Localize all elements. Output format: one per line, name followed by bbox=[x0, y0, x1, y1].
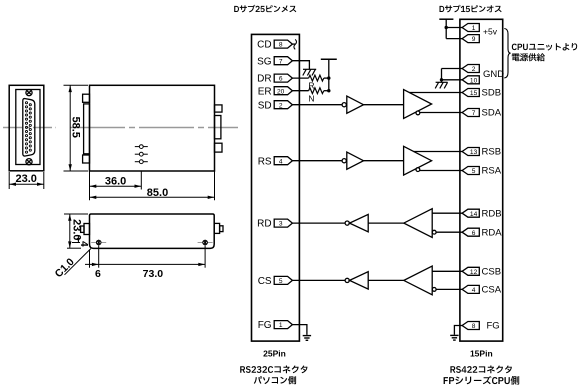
wire RSA bbox=[420, 170, 462, 172]
svg-text:5: 5 bbox=[279, 278, 283, 285]
svg-text:25Pin: 25Pin bbox=[263, 349, 286, 359]
svg-text:CS: CS bbox=[258, 276, 272, 287]
wire N to rail bbox=[324, 90, 329, 92]
driver U2 inverting bubble bbox=[416, 111, 420, 115]
pin 10 () connector symbol bbox=[462, 76, 479, 84]
no-connection break on CD bbox=[294, 39, 297, 49]
wire DR bbox=[292, 77, 308, 79]
driver U4 inverting bubble bbox=[416, 168, 420, 172]
wire pin10 to GND stem bbox=[442, 79, 463, 81]
wire R to rail bbox=[324, 77, 329, 79]
side view right connector body bbox=[215, 116, 221, 139]
+5v supply terminal bar bbox=[439, 18, 453, 20]
pin 7 (SG) connector symbol bbox=[274, 57, 292, 65]
svg-text:4: 4 bbox=[472, 287, 476, 294]
pin 6 (DR) connector symbol bbox=[274, 74, 292, 82]
pin 6 (RDA) connector symbol bbox=[462, 228, 479, 236]
wire SG bbox=[292, 61, 309, 69]
junction GND bbox=[440, 78, 443, 81]
pin 14 (RDB) connector symbol bbox=[462, 209, 479, 217]
svg-text:7: 7 bbox=[472, 110, 476, 117]
pin 5 (RSA) connector symbol bbox=[462, 167, 479, 175]
wire SD to buffer bbox=[292, 104, 342, 106]
caption RS232C connector bbox=[240, 366, 307, 374]
buffer U6 triangle (RD) bbox=[350, 214, 369, 231]
svg-text:23.0: 23.0 bbox=[15, 173, 36, 185]
chassis ground (SG) bbox=[303, 69, 316, 75]
svg-text:2: 2 bbox=[472, 66, 476, 73]
buffer U1 input bubble bbox=[342, 103, 346, 107]
wire ER bbox=[292, 90, 308, 92]
front view screw bottom bbox=[26, 159, 32, 165]
wire U3 to driver U4 bbox=[364, 160, 404, 162]
wire FG (25pin side) bbox=[292, 325, 307, 335]
header D-sub 25 pin female bbox=[234, 5, 296, 13]
pin 3 (RD) connector symbol bbox=[274, 219, 292, 227]
wire RDA bbox=[436, 231, 462, 233]
wire pin9 to rail bbox=[446, 38, 462, 40]
dimension 23.0 (bottom view) bbox=[64, 214, 88, 248]
wire RSB bbox=[414, 151, 463, 153]
wire SDA bbox=[420, 112, 462, 114]
bottom view left connector stub bbox=[84, 224, 90, 235]
svg-text:1: 1 bbox=[472, 25, 476, 32]
RS422 connector box (15pin) bbox=[460, 19, 503, 341]
pin 20 (ER) connector symbol bbox=[274, 87, 292, 95]
svg-text:SG: SG bbox=[257, 56, 272, 67]
earth ground (25pin FG) bbox=[303, 336, 311, 341]
svg-text:6: 6 bbox=[95, 268, 101, 280]
svg-text:RSA: RSA bbox=[482, 166, 502, 177]
dimension 36.0 bbox=[90, 172, 142, 190]
bottom view screw right bbox=[198, 240, 213, 246]
svg-text:9: 9 bbox=[472, 36, 476, 43]
wire CSB bbox=[432, 270, 462, 272]
bottom view body bbox=[90, 214, 215, 248]
pin 1 (+5v) connector symbol bbox=[462, 24, 479, 32]
pin 9 () connector symbol bbox=[462, 35, 479, 43]
svg-text:85.0: 85.0 bbox=[147, 187, 168, 199]
D-sub 25 shell outline bbox=[23, 99, 35, 157]
svg-text:15Pin: 15Pin bbox=[470, 349, 493, 359]
front view outer plate bbox=[9, 85, 44, 171]
svg-text:FG: FG bbox=[258, 320, 272, 331]
svg-text:4: 4 bbox=[279, 158, 283, 165]
side view left connector body bbox=[84, 104, 90, 154]
svg-text:2: 2 bbox=[279, 102, 283, 109]
side view right jack screw top bbox=[215, 105, 223, 112]
side view left jack screw bottom bbox=[83, 155, 90, 163]
svg-text:CSB: CSB bbox=[482, 267, 502, 278]
receiver U7 triangle (CS) bbox=[404, 266, 432, 295]
pin 15 (SDB) connector symbol bbox=[462, 89, 479, 97]
dimension 58.5 bbox=[64, 85, 89, 171]
wire RDB bbox=[432, 212, 462, 214]
wire CD stub bbox=[292, 43, 295, 45]
svg-text:CSA: CSA bbox=[482, 285, 502, 296]
wire U1 to driver U2 bbox=[364, 104, 404, 106]
svg-text:8: 8 bbox=[472, 323, 476, 330]
pin 2 (GND) connector symbol bbox=[462, 65, 479, 73]
pin 8 (FG) connector symbol bbox=[462, 322, 479, 330]
svg-text:RSB: RSB bbox=[482, 147, 502, 158]
resistor R bbox=[309, 75, 324, 81]
dimension 23.0 (front view) bbox=[9, 172, 44, 189]
caption PC side bbox=[254, 376, 296, 384]
junction ER/rail bbox=[327, 89, 330, 92]
svg-text:SDB: SDB bbox=[482, 88, 502, 99]
indicator pins on side view bbox=[135, 145, 148, 164]
svg-text:14: 14 bbox=[470, 211, 478, 218]
buffer U8 output bubble bbox=[345, 278, 349, 282]
svg-text:RS: RS bbox=[258, 156, 272, 167]
svg-text:73.0: 73.0 bbox=[143, 268, 164, 280]
wire U8 to receiver U7 bbox=[368, 279, 404, 281]
svg-text:SDA: SDA bbox=[482, 108, 502, 119]
wire CSA bbox=[436, 288, 462, 290]
dimension 85.0 bbox=[90, 172, 215, 201]
GND stem bbox=[441, 69, 443, 83]
svg-text:5: 5 bbox=[472, 168, 476, 175]
svg-text:6: 6 bbox=[472, 230, 476, 237]
front view inner flange bbox=[16, 90, 40, 165]
pin 2 (SD) connector symbol bbox=[274, 101, 292, 109]
wire pin1 to rail bbox=[446, 27, 462, 29]
svg-text:4: 4 bbox=[78, 241, 89, 247]
svg-text:10: 10 bbox=[470, 77, 478, 84]
centerline (side view) bbox=[70, 127, 238, 129]
receiver U5 triangle (RD) bbox=[404, 209, 432, 238]
side view right jack screw bottom bbox=[215, 143, 223, 152]
junction +5v bbox=[445, 26, 448, 29]
earth ground (15pin FG) bbox=[450, 335, 458, 340]
RS232C connector box (25pin) bbox=[252, 34, 300, 341]
svg-text:7: 7 bbox=[279, 58, 283, 65]
bottom view left connector tip bbox=[81, 226, 84, 232]
svg-text:20: 20 bbox=[277, 88, 285, 95]
svg-text:36.0: 36.0 bbox=[105, 175, 126, 187]
svg-text:FG: FG bbox=[487, 321, 500, 332]
pin 5 (CS) connector symbol bbox=[274, 276, 292, 284]
dimension 4 bbox=[72, 236, 80, 243]
svg-text:12: 12 bbox=[470, 269, 478, 276]
side view main body bbox=[90, 85, 215, 171]
svg-text:15: 15 bbox=[470, 90, 478, 97]
pin 1 (FG) connector symbol bbox=[274, 321, 292, 329]
svg-text:ER: ER bbox=[258, 86, 272, 97]
rail terminal bar bbox=[321, 58, 337, 60]
chamfer leader C1.0 bbox=[65, 249, 91, 275]
svg-text:GND: GND bbox=[483, 69, 504, 80]
receiver U5 inverting bubble bbox=[432, 230, 436, 234]
header D-sub 15 pin male bbox=[440, 5, 502, 13]
svg-text:13: 13 bbox=[470, 149, 478, 156]
receiver U7 inverting bubble bbox=[432, 288, 436, 292]
pin 13 (RSB) connector symbol bbox=[462, 148, 479, 156]
svg-text:58.5: 58.5 bbox=[69, 116, 81, 137]
pin 4 (RS) connector symbol bbox=[274, 157, 292, 165]
resistor N bbox=[309, 88, 324, 94]
bottom view screw left bbox=[91, 240, 106, 246]
wire U6 to receiver U5 bbox=[368, 222, 404, 224]
svg-text:CD: CD bbox=[257, 40, 271, 51]
svg-text:RDA: RDA bbox=[482, 227, 503, 238]
svg-text:N: N bbox=[308, 93, 314, 103]
chassis ground (GND) bbox=[435, 82, 447, 88]
pin 7 (SDA) connector symbol bbox=[462, 109, 479, 117]
buffer U1 triangle (SD) bbox=[347, 96, 364, 113]
wire RS to buffer bbox=[292, 160, 342, 162]
centerline (front view) bbox=[3, 127, 56, 129]
pin 12 (CSB) connector symbol bbox=[462, 267, 479, 275]
buffer U6 output bubble bbox=[345, 221, 349, 225]
svg-text:DR: DR bbox=[257, 74, 271, 85]
front view screw top bbox=[26, 90, 32, 96]
pin 8 (CD) connector symbol bbox=[274, 40, 292, 48]
buffer U8 triangle (CS) bbox=[350, 272, 369, 289]
buffer U3 input bubble bbox=[342, 159, 346, 163]
bottom view right connector stub bbox=[214, 223, 219, 233]
driver U2 triangle (SD) bbox=[404, 90, 432, 119]
pin 4 (CSA) connector symbol bbox=[462, 285, 479, 293]
bottom view right connector tip bbox=[220, 226, 223, 232]
wire FG (15pin side) bbox=[454, 326, 462, 335]
svg-text:23.0: 23.0 bbox=[70, 219, 82, 240]
svg-text:1: 1 bbox=[279, 322, 283, 329]
side view left jack screw top bbox=[83, 94, 90, 102]
svg-text:6: 6 bbox=[279, 76, 283, 83]
svg-text:+5v: +5v bbox=[483, 27, 498, 37]
dimension 6 and 73.0 bbox=[85, 246, 205, 268]
+5v rail stem bbox=[445, 19, 447, 38]
D-sub 25 pin holes bbox=[25, 102, 31, 154]
svg-text:3: 3 bbox=[279, 221, 283, 228]
driver U4 triangle (RS) bbox=[404, 146, 432, 175]
wire CS from buffer bbox=[292, 279, 345, 281]
wire RD from buffer bbox=[292, 222, 345, 224]
caption FP series CPU side bbox=[444, 376, 520, 385]
wire SDB bbox=[409, 92, 462, 94]
svg-text:SD: SD bbox=[258, 100, 272, 111]
brace (power from CPU unit) bbox=[504, 29, 510, 78]
buffer U3 triangle (RS) bbox=[347, 152, 364, 169]
wire pin2 GND bbox=[442, 68, 463, 70]
junction DR/rail bbox=[327, 76, 330, 79]
note: power supplied from CPU unit bbox=[512, 43, 577, 51]
svg-text:8: 8 bbox=[279, 42, 283, 49]
pull-up rail bbox=[328, 59, 330, 90]
svg-text:RDB: RDB bbox=[482, 208, 502, 219]
caption RS422 connector bbox=[450, 366, 512, 374]
svg-text:RD: RD bbox=[257, 219, 271, 230]
